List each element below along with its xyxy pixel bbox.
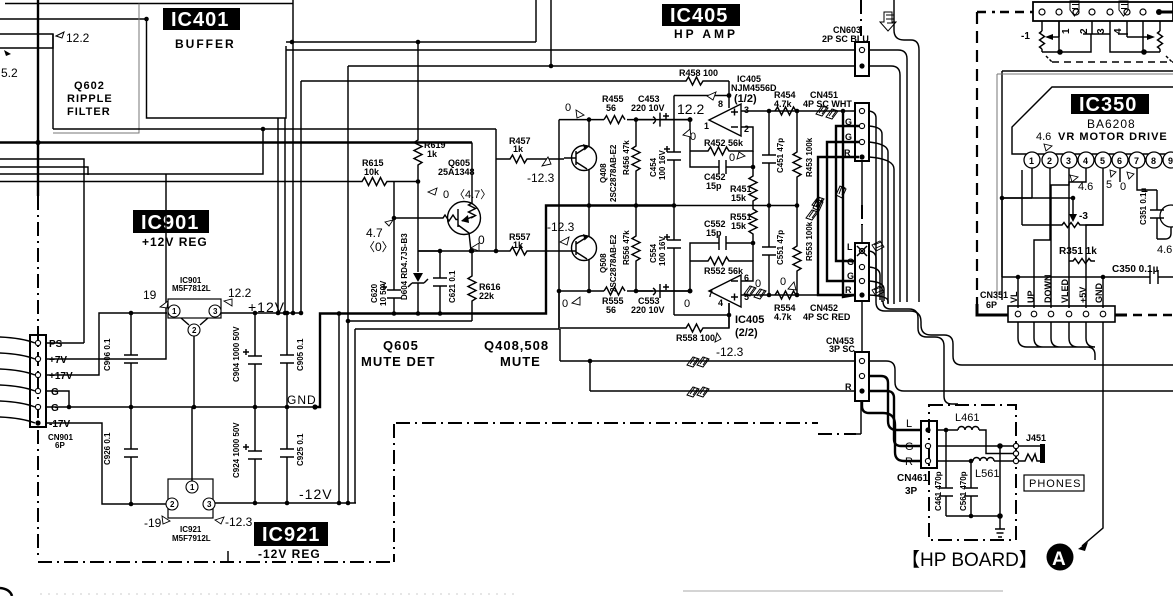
board border dash-dot left bbox=[37, 196, 39, 560]
IC901 package bbox=[168, 299, 221, 318]
CN351 harness drops bbox=[1018, 322, 1095, 360]
Q605 emitter resistor to +12V line bbox=[462, 143, 476, 222]
Q408 collector down bbox=[588, 169, 590, 206]
CN451 harness curves right bbox=[869, 111, 894, 304]
pin2 wire to UP bbox=[1034, 168, 1050, 308]
svg-text:R452 56k: R452 56k bbox=[704, 138, 744, 148]
svg-text:C451 47p: C451 47p bbox=[776, 138, 785, 173]
signal arrows mid cable bbox=[813, 186, 846, 211]
svg-text:15k: 15k bbox=[731, 193, 747, 203]
capacitor C553 bbox=[636, 284, 690, 298]
svg-text:10k: 10k bbox=[364, 167, 380, 177]
bus vertical x285 bbox=[284, 118, 286, 313]
svg-text:J451: J451 bbox=[1026, 433, 1046, 443]
svg-text:R: R bbox=[905, 456, 913, 468]
svg-text:100 16V: 100 16V bbox=[658, 236, 667, 266]
IC350 pin1 wire bbox=[1031, 168, 1033, 198]
wire -12V from pin3 bbox=[215, 502, 356, 504]
+12V wire from pin3 bbox=[221, 312, 301, 314]
CN453 pin1 through wire to right edge bbox=[869, 361, 1173, 391]
svg-text:D604 RD4.7JS-B3: D604 RD4.7JS-B3 bbox=[400, 233, 409, 300]
label 4.7 arrow bbox=[385, 220, 393, 226]
svg-text:IC401: IC401 bbox=[171, 9, 229, 31]
svg-text:M5F7812L: M5F7812L bbox=[172, 284, 211, 293]
node bus1 x418 bbox=[416, 40, 421, 45]
svg-text:C350 0.1µ: C350 0.1µ bbox=[1112, 264, 1159, 275]
node mute drive split bbox=[494, 249, 499, 254]
svg-text:Q508: Q508 bbox=[599, 253, 608, 273]
CN901 lead-in curves bbox=[0, 337, 35, 423]
IC901 pin 3 bbox=[209, 305, 221, 317]
-12V riser x356 bbox=[354, 329, 356, 503]
CN461 pin G bbox=[925, 443, 930, 448]
wire to circled A bbox=[1082, 415, 1103, 546]
svg-text:4.6: 4.6 bbox=[1078, 181, 1093, 193]
long dashed vertical boundary bbox=[976, 12, 978, 306]
wire IC921 pin1 to GND bbox=[191, 407, 193, 481]
dashed line below pots bbox=[1052, 61, 1173, 63]
CN351 GND harness to A bbox=[1102, 322, 1104, 415]
svg-text:-1: -1 bbox=[1021, 31, 1030, 42]
svg-text:0: 0 bbox=[565, 102, 571, 114]
CN901 pin 4 G bbox=[35, 388, 40, 393]
resistor R558 bbox=[560, 303, 729, 332]
svg-text:R: R bbox=[845, 285, 852, 295]
label IC405 box bbox=[662, 4, 740, 26]
node Q408 emitter on line bbox=[587, 117, 592, 122]
svg-text:-12.3: -12.3 bbox=[547, 220, 575, 234]
wire 12.2 bend down bbox=[52, 34, 54, 129]
wire y198 to wiper bbox=[1002, 197, 1073, 199]
node fb2 right bbox=[751, 241, 756, 246]
node C621 top bbox=[438, 249, 443, 254]
op-amp U1 IC405 1/2 bbox=[709, 104, 741, 136]
svg-text:R453 100k: R453 100k bbox=[805, 137, 814, 177]
pin4 wire bbox=[1092, 21, 1128, 34]
svg-text:6P: 6P bbox=[55, 441, 65, 450]
CN451 shield cable G2 to CN452 bbox=[827, 142, 859, 281]
bottom cut text remnants bbox=[683, 590, 1003, 592]
svg-text:15p: 15p bbox=[706, 228, 722, 238]
svg-text:RIPPLE: RIPPLE bbox=[67, 93, 113, 105]
svg-text:0: 0 bbox=[780, 276, 786, 288]
IC901 label box bbox=[133, 210, 209, 233]
svg-text:IC901: IC901 bbox=[141, 212, 199, 234]
capacitor C454 bbox=[664, 96, 681, 206]
svg-text:15p: 15p bbox=[706, 181, 722, 191]
mute return wire path bbox=[355, 120, 559, 329]
pot R350 -3 wiper bbox=[1072, 198, 1074, 216]
label 0 at Q605 out bbox=[471, 243, 479, 251]
wire -17V to IC921 in bbox=[46, 423, 166, 504]
svg-text:C461 470p: C461 470p bbox=[934, 471, 943, 511]
svg-text:+5V: +5V bbox=[1078, 287, 1088, 303]
svg-text:+7V: +7V bbox=[49, 355, 67, 366]
svg-text:2: 2 bbox=[170, 500, 175, 509]
svg-text:220 10V: 220 10V bbox=[631, 103, 665, 113]
capacitor C552 bbox=[690, 236, 753, 261]
capacitor C924 electrolytic bbox=[243, 407, 262, 503]
hatch arrows CN452 right bbox=[872, 241, 884, 296]
svg-text:Q408,508: Q408,508 bbox=[484, 338, 549, 353]
wire R619 to zener bbox=[417, 182, 419, 252]
svg-text:9: 9 bbox=[1168, 156, 1173, 166]
svg-text:MUTE DET: MUTE DET bbox=[361, 354, 435, 369]
svg-text:IC350: IC350 bbox=[1079, 94, 1137, 116]
node C926 bottom bbox=[129, 502, 134, 507]
svg-text:R351 1k: R351 1k bbox=[1059, 246, 1097, 257]
IC921 package bbox=[168, 479, 213, 518]
board border dash-dot bottom-right run bbox=[396, 423, 856, 434]
svg-text:5: 5 bbox=[1100, 156, 1105, 166]
wire pin4 drop bbox=[728, 303, 730, 328]
svg-text:C904 1000 50V: C904 1000 50V bbox=[232, 326, 241, 382]
svg-text:G: G bbox=[847, 271, 854, 281]
vertical from top line to bus1 bbox=[535, 0, 537, 42]
node L561 left bbox=[969, 459, 974, 464]
svg-text:C924 1000 50V: C924 1000 50V bbox=[232, 422, 241, 478]
node ch2 R555 left bbox=[557, 289, 562, 294]
svg-text:VL: VL bbox=[1009, 291, 1019, 303]
thick dashed lead-in bbox=[1000, 11, 1033, 13]
resistor R555 bbox=[604, 287, 625, 295]
svg-text:56: 56 bbox=[606, 305, 616, 315]
wire y277 C350 bbox=[1002, 276, 1173, 278]
wire y321 bbox=[348, 320, 472, 322]
svg-text:CN351: CN351 bbox=[980, 290, 1008, 300]
capacitor C452 bbox=[690, 151, 753, 174]
dashed ticks bbox=[1046, 56, 1172, 62]
IC901 pin 1 bbox=[168, 305, 180, 317]
+12V bus nodes bbox=[276, 311, 281, 316]
svg-text:22k: 22k bbox=[479, 291, 495, 301]
svg-text:56: 56 bbox=[606, 103, 616, 113]
resistor R616 bbox=[468, 251, 476, 321]
svg-text:25A1348: 25A1348 bbox=[438, 167, 475, 177]
capacitor C461 bbox=[939, 430, 953, 516]
wire mute drive y251 bbox=[418, 250, 496, 252]
Q508 collector up bbox=[588, 206, 590, 238]
VR1 wiper bbox=[1052, 36, 1059, 38]
capacitor C925 bbox=[280, 407, 294, 503]
capacitor C621 bbox=[433, 251, 447, 314]
IC401 box outline bbox=[147, 19, 287, 118]
svg-text:7: 7 bbox=[708, 289, 713, 299]
Q408 emitter up bbox=[588, 120, 590, 147]
motor M bbox=[1157, 227, 1171, 239]
svg-text:100 16V: 100 16V bbox=[658, 150, 667, 180]
node C453 left bbox=[634, 117, 639, 122]
pin5-pot link bbox=[1088, 224, 1103, 226]
svg-text:R: R bbox=[845, 382, 852, 392]
wire pin8 feedback drop bbox=[728, 81, 730, 108]
svg-text:L561: L561 bbox=[975, 468, 999, 480]
IC401 label box bbox=[163, 8, 240, 30]
bus1 wire y44 to CN603 bbox=[286, 42, 855, 50]
svg-text:3P SC: 3P SC bbox=[829, 344, 855, 354]
svg-text:+17V: +17V bbox=[49, 371, 73, 382]
svg-text:BA6208: BA6208 bbox=[1087, 117, 1136, 131]
IC350 pin circles 1-9 bbox=[1024, 152, 1173, 168]
node op-amp2 out bbox=[688, 289, 693, 294]
svg-text:Q602: Q602 bbox=[74, 80, 105, 92]
svg-text:0: 0 bbox=[684, 298, 690, 310]
svg-text:R556 47k: R556 47k bbox=[622, 230, 631, 265]
resistor R557 bbox=[496, 247, 564, 255]
capacitor C904 electrolytic bbox=[243, 313, 262, 407]
-12V riser x348 node bbox=[346, 319, 351, 324]
svg-text:〈0〉: 〈0〉 bbox=[363, 240, 394, 254]
GND rail nodes bbox=[129, 405, 134, 410]
thick stub right of pin8 bbox=[1161, 11, 1173, 14]
svg-text:2SC2878AB-E2: 2SC2878AB-E2 bbox=[609, 234, 618, 292]
wire top horizontal y3.5 bbox=[5, 3, 293, 5]
op-amp U2 IC405 2/2 bbox=[709, 275, 741, 307]
pin6 stub bbox=[1119, 168, 1121, 182]
resistor R619 bbox=[414, 42, 422, 182]
border corner at CN453 bbox=[856, 401, 861, 434]
svg-text:3: 3 bbox=[1066, 156, 1071, 166]
bus vertical x278 bbox=[277, 118, 279, 313]
wire top-left vertical bbox=[37, 0, 39, 196]
bus vertical x293 bbox=[292, 0, 294, 313]
capacitor C906 bbox=[124, 313, 138, 407]
-12V riser x339 bbox=[338, 314, 340, 504]
svg-text:CN461: CN461 bbox=[897, 473, 929, 484]
node Q605 collector bbox=[469, 249, 474, 254]
wire GND pin down bbox=[1102, 277, 1104, 308]
resistor R454 bbox=[775, 107, 796, 115]
signal arrows pin5 bbox=[744, 286, 766, 299]
svg-text:1: 1 bbox=[704, 121, 709, 131]
bus vertical x301 bbox=[300, 81, 302, 313]
vertical from R558 area bbox=[559, 329, 561, 361]
thick dashed right of CN351 bbox=[1115, 314, 1127, 317]
CN453 cable to CN461 R bbox=[862, 401, 921, 461]
pin5 wire bbox=[1086, 168, 1103, 308]
svg-text:C454: C454 bbox=[649, 157, 658, 177]
pin3 wire to DOWN bbox=[1051, 168, 1069, 308]
node bus1 x292 bbox=[290, 40, 295, 45]
svg-text:4: 4 bbox=[718, 298, 723, 308]
Q508 emitter down bbox=[588, 259, 590, 291]
svg-text:4: 4 bbox=[1113, 28, 1124, 34]
resistor R551 bbox=[749, 206, 757, 244]
svg-text:2: 2 bbox=[192, 326, 197, 335]
svg-text:M5F7912L: M5F7912L bbox=[172, 534, 211, 543]
IC921 label box bbox=[254, 522, 328, 546]
hatch arrows on pins 3,6 bbox=[1070, 1, 1128, 16]
node G step bbox=[67, 405, 72, 410]
capacitor C453 coupling bbox=[636, 113, 690, 127]
CN453 cable to CN461 G bbox=[869, 391, 921, 446]
HP board dash-dot outline bbox=[929, 405, 1016, 540]
capacitor C551 bbox=[762, 206, 776, 296]
svg-text:(1/2): (1/2) bbox=[734, 93, 757, 105]
svg-text:4.6: 4.6 bbox=[1036, 131, 1051, 143]
transistor Q605 bbox=[448, 202, 481, 235]
connector CN461 3P body bbox=[921, 421, 937, 468]
svg-text:R458 100: R458 100 bbox=[679, 68, 718, 78]
resistor R552 feedback bbox=[690, 257, 753, 281]
left wire bundle y159 bbox=[0, 159, 84, 343]
VR1 bottom loop bbox=[1042, 34, 1091, 52]
resistor R553 bbox=[793, 206, 801, 296]
CN603 right wires bbox=[869, 50, 907, 302]
pot R350 body bbox=[1022, 223, 1088, 228]
CN901 pin 2 +7V bbox=[35, 356, 40, 361]
wire opamp2 out to feedback bbox=[689, 261, 691, 291]
mid rail nodes bbox=[587, 203, 592, 208]
node C451 bbox=[767, 109, 772, 114]
svg-text:1k: 1k bbox=[513, 144, 524, 154]
label -12.3 Q408 bbox=[542, 157, 551, 166]
svg-text:IC921: IC921 bbox=[180, 525, 202, 534]
CN451 cable R to CN452 bbox=[818, 157, 859, 295]
svg-text:7: 7 bbox=[1134, 156, 1139, 166]
svg-text:5: 5 bbox=[1106, 179, 1112, 191]
resistor R554 bbox=[775, 291, 796, 299]
connector CN451 bbox=[855, 103, 869, 161]
connector CN453 bbox=[855, 352, 869, 401]
wire IC901 pin2 to GND bbox=[193, 336, 195, 407]
pin4 wire to VLED bbox=[1069, 168, 1086, 308]
svg-text:1: 1 bbox=[190, 483, 195, 492]
svg-text:2SC2878AB-E2: 2SC2878AB-E2 bbox=[609, 144, 618, 202]
svg-text:FILTER: FILTER bbox=[67, 106, 111, 118]
wire +17V to IC901 in bbox=[46, 313, 167, 375]
svg-text:15k: 15k bbox=[731, 221, 747, 231]
svg-text:0: 0 bbox=[562, 298, 568, 310]
svg-text:1: 1 bbox=[172, 307, 177, 316]
wire y129 to mute drive bbox=[53, 128, 496, 130]
svg-text:PHONES: PHONES bbox=[1029, 478, 1081, 490]
wire PS up bbox=[46, 342, 84, 344]
svg-text:-12V: -12V bbox=[299, 486, 333, 502]
harness staircase to long line L bbox=[876, 302, 1173, 365]
CN901 pin 5 G bbox=[35, 404, 40, 409]
svg-text:-12V REG: -12V REG bbox=[258, 547, 321, 561]
bottom-left cut circle bbox=[0, 588, 12, 596]
arrow 12.2 bbox=[56, 32, 64, 38]
node x38 y143 bbox=[35, 140, 40, 145]
svg-text:2: 2 bbox=[744, 124, 749, 134]
IC901 pin 2 bbox=[188, 324, 200, 336]
svg-text:4.7: 4.7 bbox=[366, 226, 383, 240]
connector CN603 bbox=[855, 42, 869, 76]
wire 5.2 step bbox=[0, 34, 53, 48]
node C905 top bbox=[285, 311, 290, 316]
transistor Q408 bbox=[572, 146, 597, 171]
svg-text:2: 2 bbox=[1047, 156, 1052, 166]
svg-text:3: 3 bbox=[213, 307, 218, 316]
link CN452-CN453 bbox=[861, 301, 863, 352]
svg-text:BUFFER: BUFFER bbox=[175, 37, 236, 51]
wire G row to jack bbox=[937, 445, 1013, 447]
svg-text:C561 470p: C561 470p bbox=[959, 471, 968, 511]
dashed border right of CN bbox=[977, 11, 995, 13]
label PHONES box bbox=[1024, 475, 1084, 491]
svg-text:3: 3 bbox=[1096, 28, 1107, 34]
IC921 pin 1 bbox=[186, 481, 198, 493]
svg-text:3: 3 bbox=[207, 500, 212, 509]
signal arrows out L bbox=[687, 357, 709, 367]
CN451 signal drop x843 bbox=[843, 111, 855, 297]
CN461 pin L bbox=[925, 427, 930, 432]
transistor Q508 bbox=[572, 236, 597, 261]
svg-text:R553 100k: R553 100k bbox=[805, 221, 814, 261]
IC350 label box bbox=[1071, 94, 1149, 114]
svg-text:【HP BOARD】: 【HP BOARD】 bbox=[901, 549, 1038, 571]
left wire bundle y174 bbox=[0, 129, 263, 174]
node op-amp1 out bbox=[688, 117, 693, 122]
svg-text:5.2: 5.2 bbox=[1, 66, 18, 80]
IC350 shield box bbox=[1002, 71, 1173, 300]
wire pin3 to CN451 bbox=[741, 110, 855, 112]
CN453 cable to CN461 L bbox=[869, 376, 921, 430]
label 0 4.7 with arrow bbox=[428, 188, 437, 195]
svg-text:G: G bbox=[845, 132, 852, 142]
node y129/x263 bbox=[261, 127, 266, 132]
svg-text:4.7k: 4.7k bbox=[774, 99, 793, 109]
svg-text:-12.3: -12.3 bbox=[527, 171, 555, 185]
pin7 wire to C351 bbox=[1137, 168, 1157, 190]
VR2 wiper bbox=[1127, 36, 1147, 38]
bus vertical x348 (-12V feed) bbox=[347, 66, 349, 503]
svg-text:C621 0.1: C621 0.1 bbox=[448, 270, 457, 303]
svg-text:3: 3 bbox=[744, 105, 749, 115]
wire ch2 input line y291 bbox=[559, 290, 690, 292]
node C906 top bbox=[129, 311, 134, 316]
svg-text:A: A bbox=[1052, 549, 1066, 570]
svg-text:HP AMP: HP AMP bbox=[674, 27, 738, 41]
node R616 top bbox=[470, 249, 475, 254]
node Q508 emitter on line bbox=[587, 289, 592, 294]
IC921 pin 3 bbox=[203, 498, 215, 510]
dash-dot border top right bbox=[860, 0, 862, 36]
svg-text:G: G bbox=[847, 257, 854, 267]
board border dash-dot vertical mid bbox=[393, 424, 395, 562]
svg-text:12.2: 12.2 bbox=[228, 286, 252, 300]
svg-text:R552 56k: R552 56k bbox=[704, 266, 744, 276]
svg-text:DOWN: DOWN bbox=[1043, 275, 1053, 304]
resistor R556 bbox=[632, 206, 640, 292]
svg-text:C905 0.1: C905 0.1 bbox=[296, 338, 305, 371]
long wire to CN453 pin3 bbox=[590, 390, 855, 392]
VR pins bbox=[1039, 9, 1045, 15]
svg-text:(2/2): (2/2) bbox=[735, 327, 758, 339]
wire R555 node to R558 line bbox=[558, 291, 560, 328]
svg-text:12.2: 12.2 bbox=[677, 101, 704, 117]
node base bbox=[392, 216, 397, 221]
svg-text:VR MOTOR DRIVE: VR MOTOR DRIVE bbox=[1058, 131, 1168, 143]
svg-text:0: 0 bbox=[729, 152, 735, 164]
wire from top into harness bbox=[894, 0, 919, 302]
svg-text:+12V REG: +12V REG bbox=[142, 235, 208, 249]
svg-text:2: 2 bbox=[1079, 28, 1090, 34]
CN351 border corner bbox=[977, 304, 1008, 315]
inductor L461 bbox=[937, 427, 1013, 454]
svg-text:0: 0 bbox=[1120, 181, 1126, 193]
mid rail ch bbox=[672, 205, 797, 207]
Q602 shield box bbox=[53, 4, 139, 134]
node G junction bbox=[997, 443, 1003, 449]
svg-text:L461: L461 bbox=[955, 412, 979, 424]
node C553 left bbox=[634, 289, 639, 294]
svg-text:4: 4 bbox=[1083, 156, 1088, 166]
svg-text:1: 1 bbox=[1061, 28, 1072, 34]
svg-text:NJM4556D: NJM4556D bbox=[731, 83, 777, 93]
